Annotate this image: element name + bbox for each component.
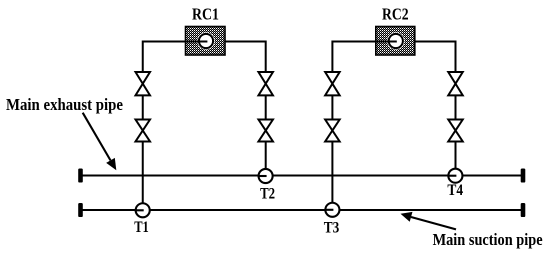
wire: RC1 left branch to circle center <box>143 42 208 73</box>
sensor T1 circle <box>136 203 150 217</box>
svg-text:T1: T1 <box>134 219 149 236</box>
wire branch 1 down to T1 <box>142 142 144 203</box>
valve V2a (branch 2 upper) <box>258 72 273 95</box>
controller RC1 box <box>186 27 226 56</box>
wire between valves branch 3 <box>331 95 333 119</box>
valve V4b (branch 4 lower) <box>448 120 463 142</box>
valve V2b (branch 2 lower) <box>258 120 273 142</box>
arrow head exhaust <box>106 158 116 170</box>
arrow head suction <box>401 212 413 222</box>
controller RC1 indicator circle <box>197 32 214 49</box>
svg-text:Main suction pipe: Main suction pipe <box>433 230 543 249</box>
arrow to exhaust pipe line <box>83 113 111 161</box>
svg-text:RC1: RC1 <box>192 4 219 23</box>
wire between valves branch 2 <box>265 95 267 119</box>
wire: RC2 right to T4 branch <box>415 42 456 73</box>
valve V1b (branch 1 lower) <box>136 120 151 142</box>
sensor T2 circle <box>259 169 273 183</box>
wire: RC1 right to T2 branch <box>225 42 266 73</box>
svg-text:RC2: RC2 <box>382 4 409 23</box>
wire branch 2 down to T2 <box>265 142 267 169</box>
sensor T1 stub <box>135 209 144 211</box>
exhaust pipe left end cap <box>78 169 83 183</box>
valve V3b (branch 3 lower) <box>325 120 340 142</box>
suction pipe left end cap <box>78 203 83 217</box>
svg-text:T3: T3 <box>324 220 340 237</box>
sensor T4 stub <box>447 175 456 177</box>
controller RC2 indicator circle <box>387 32 404 49</box>
wire branch 4 down to T4 <box>455 142 457 169</box>
main exhaust pipe line <box>81 175 524 177</box>
valve V4a (branch 4 upper) <box>448 72 463 95</box>
sensor T4 circle <box>448 169 462 183</box>
wire: RC2 left branch to circle center <box>332 42 396 73</box>
main suction pipe line <box>81 209 524 211</box>
wire between valves branch 1 <box>142 95 144 119</box>
sensor T2 stub <box>258 175 267 177</box>
suction pipe right end cap <box>521 203 526 217</box>
svg-text:T4: T4 <box>447 182 463 199</box>
valve V1a (branch 1 upper) <box>136 72 151 95</box>
wire between valves branch 4 <box>455 95 457 119</box>
wire branch 3 down to T3 <box>331 142 333 203</box>
valve V3a (branch 3 upper) <box>325 72 340 95</box>
svg-text:T2: T2 <box>260 186 275 203</box>
svg-text:Main exhaust pipe: Main exhaust pipe <box>6 95 123 114</box>
exhaust pipe right end cap <box>521 169 526 183</box>
sensor T3 circle <box>325 203 339 217</box>
sensor T3 stub <box>324 209 333 211</box>
arrow to suction pipe line <box>411 217 456 229</box>
controller RC2 box <box>376 27 415 56</box>
